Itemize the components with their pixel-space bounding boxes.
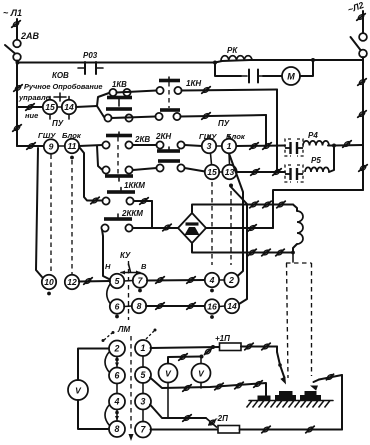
svg-text:Ручное Опробование: Ручное Опробование [24,82,102,91]
svg-text:ГШУ: ГШУ [38,131,56,140]
svg-text:6: 6 [115,371,120,381]
svg-text:Блок: Блок [62,131,82,140]
svg-text:3: 3 [207,141,212,151]
svg-text:9: 9 [49,142,54,152]
svg-text:4: 4 [114,397,120,407]
svg-text:1КВ: 1КВ [112,80,127,89]
svg-text:РК: РК [227,46,238,55]
svg-text:Р4: Р4 [308,131,318,140]
svg-text:2ККМ: 2ККМ [121,209,143,218]
svg-text:~ Л1: ~ Л1 [3,8,22,18]
svg-text:5: 5 [115,276,120,286]
svg-text:2КВ: 2КВ [134,135,150,144]
svg-text:-2П: -2П [215,414,228,423]
svg-text:2АВ: 2АВ [20,31,40,41]
svg-text:16: 16 [207,302,217,312]
svg-text:управле: управле [18,93,50,102]
svg-text:2КН: 2КН [155,132,171,141]
svg-text:КУ: КУ [120,251,131,260]
svg-text:3: 3 [141,397,146,407]
svg-text:1: 1 [141,343,146,353]
svg-text:КОВ: КОВ [52,71,69,80]
svg-text:5: 5 [141,370,146,380]
svg-text:ПУ: ПУ [52,119,64,128]
svg-text:14: 14 [227,301,237,311]
svg-text:14: 14 [64,102,74,112]
svg-text:ЛМ: ЛМ [117,325,130,334]
svg-text:8: 8 [115,424,120,434]
svg-text:13: 13 [225,167,235,177]
svg-text:1КН: 1КН [186,79,201,88]
svg-text:В: В [141,262,147,271]
svg-text:+1П: +1П [215,334,230,343]
svg-text:ПУ: ПУ [218,119,230,128]
svg-text:2: 2 [228,275,234,285]
svg-text:15: 15 [45,102,55,112]
svg-text:ние: ние [25,111,38,120]
svg-text:Н: Н [105,262,111,271]
svg-text:12: 12 [67,277,77,287]
svg-text:М: М [287,72,295,82]
svg-text:15: 15 [207,167,217,177]
svg-text:10: 10 [44,277,54,287]
svg-text:2: 2 [114,344,120,354]
svg-text:11: 11 [68,141,77,151]
svg-text:1: 1 [227,141,232,151]
svg-text:4: 4 [209,275,215,285]
svg-text:1ККМ: 1ККМ [124,181,145,190]
svg-text:6: 6 [115,302,120,312]
svg-text:8: 8 [137,301,142,311]
svg-text:Р5: Р5 [311,156,321,165]
svg-text:Р03: Р03 [83,51,98,60]
